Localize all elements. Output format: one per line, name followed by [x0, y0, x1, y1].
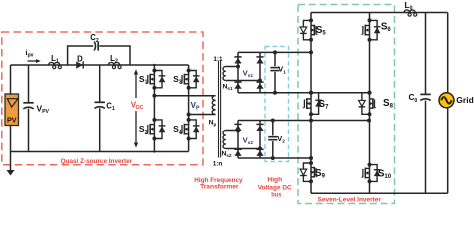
wire inverter right leg	[369, 13, 371, 194]
svg-text:Voltage DC: Voltage DC	[258, 184, 292, 191]
transistor S6	[361, 18, 380, 41]
capacitor C1	[95, 65, 105, 152]
node S2 leg bottom rail	[153, 150, 155, 152]
node V1 bottom	[273, 91, 277, 95]
caption Seven-Level Inverter	[318, 196, 382, 203]
label S8	[383, 98, 394, 110]
wire inverter bottom rail	[311, 192, 448, 194]
diode bridge2 bottom-right	[256, 149, 263, 156]
transformer secondary winding N_s2	[223, 131, 226, 149]
label V1	[278, 65, 286, 76]
label N_s2	[221, 151, 231, 159]
grid source Grid	[439, 93, 454, 108]
svg-text:Seven-Level Inverter: Seven-Level Inverter	[318, 196, 382, 203]
label S7	[319, 99, 330, 111]
label 1:1 turns ratio	[213, 56, 223, 63]
measurement arrow V_dc	[134, 69, 138, 147]
inductor L0	[404, 10, 417, 16]
dashed boundary box: Quasi Z-source Inverter region	[2, 32, 203, 165]
capacitor C2	[94, 41, 98, 50]
label S10	[378, 169, 392, 181]
capacitor C0	[420, 94, 430, 100]
transistor S8	[359, 91, 377, 117]
label L1	[51, 54, 59, 65]
node left-leg midpoint	[152, 94, 156, 98]
node bridge2-bottom rail joins left leg	[309, 156, 313, 160]
diode bridge1 top-right	[256, 57, 263, 64]
wire top rail	[11, 64, 189, 66]
svg-text:Transformer: Transformer	[200, 184, 239, 191]
transistor S7	[303, 91, 322, 117]
node V2 bottom	[271, 156, 275, 160]
diode bridge2 top-right	[256, 124, 263, 131]
wire bridge2 bottom rail	[238, 157, 311, 159]
transistor S1	[146, 69, 165, 90]
wire return stub below PV	[10, 152, 12, 171]
node S1 leg top rail	[153, 64, 155, 66]
wire left-leg midpoint to primary top	[154, 95, 215, 97]
svg-text:1:1: 1:1	[213, 56, 223, 63]
wire PV top riser	[10, 65, 12, 95]
wire inverter top rail	[311, 12, 448, 14]
wire secondary2 top lead	[226, 130, 238, 132]
label V_s2	[243, 136, 254, 147]
label V_s1	[243, 68, 254, 79]
wire bridge2 right leg	[259, 121, 261, 159]
transistor S4	[180, 118, 199, 141]
svg-text:D: D	[77, 55, 83, 64]
label S9	[315, 168, 326, 180]
caption High Voltage DC bus	[258, 177, 292, 199]
label V2	[277, 134, 285, 145]
capacitor V2	[268, 121, 277, 159]
diode bridge2 bottom-left	[234, 149, 241, 156]
label C0	[409, 93, 418, 104]
node V1-top rail joins left leg	[309, 50, 313, 54]
label S4	[173, 124, 182, 136]
label 1:n turns ratio	[213, 161, 223, 168]
wire PV bottom riser	[10, 125, 12, 152]
node right-leg midpoint	[187, 113, 191, 117]
wire secondary1 bottom lead	[226, 80, 260, 82]
transistor S2	[146, 118, 165, 141]
svg-text:1:n: 1:n	[213, 161, 223, 168]
label Grid	[456, 95, 473, 105]
label C1	[106, 101, 115, 112]
wire inverter left leg	[310, 13, 312, 194]
wire bridge1 right leg	[259, 52, 261, 92]
label V_dc	[131, 101, 144, 112]
transistor S5	[300, 18, 318, 41]
PV source PV	[5, 94, 19, 126]
diode bridge1 bottom-right	[256, 82, 263, 89]
wire bridge1 bottom rail	[238, 92, 370, 94]
node V2 top	[271, 119, 275, 123]
capacitor V_PV	[23, 65, 33, 152]
label N_p	[209, 119, 217, 127]
caption High Frequency Transformer	[194, 177, 243, 191]
transistor S10	[361, 163, 380, 184]
node bridge1-bottom rail joins right leg	[368, 91, 372, 95]
transformer primary winding N_p	[212, 96, 215, 115]
label V_P	[191, 101, 200, 112]
diode D	[76, 61, 83, 68]
label i_pv	[25, 48, 33, 59]
capacitor V1	[270, 52, 279, 92]
label L0	[405, 1, 413, 12]
wire grid branch	[447, 13, 449, 194]
label N_s1	[222, 84, 232, 92]
node bridge1 AC right	[258, 79, 262, 83]
wire C0 branch riser	[425, 13, 427, 194]
diode bridge2 top-left	[234, 124, 241, 131]
wire bridge1 left leg	[237, 52, 239, 92]
transistor S9	[300, 161, 318, 183]
caption Quasi Z-source Inverter	[61, 158, 133, 165]
label S1	[139, 74, 148, 86]
label V_PV	[37, 104, 50, 116]
transformer core	[219, 61, 221, 158]
transformer secondary winding N_s1	[223, 67, 226, 81]
wire H-bridge left leg	[153, 65, 155, 152]
wire bridge1 top rail	[238, 51, 311, 53]
inductor L1	[49, 62, 62, 68]
wire secondary1 top lead	[226, 66, 238, 68]
node bridge2 AC right	[258, 147, 262, 151]
wire bridge2 top rail	[238, 120, 369, 122]
wire C2 branch	[68, 46, 130, 65]
diode bridge1 bottom-left	[234, 82, 241, 89]
dashed boundary box: Seven-Level Inverter region	[298, 5, 395, 204]
svg-text:PV: PV	[7, 116, 17, 125]
svg-text:High: High	[267, 177, 282, 184]
node bridge2-top rail joins right leg	[367, 119, 371, 123]
node bridge1 AC left	[236, 65, 240, 69]
label S3	[173, 74, 182, 86]
node bridge2-top rail crosses left leg	[309, 119, 313, 123]
svg-text:bus: bus	[271, 191, 281, 198]
wire secondary2 bottom lead	[226, 148, 260, 150]
label D	[77, 55, 83, 64]
wire right-leg midpoint to primary bottom	[189, 114, 216, 116]
node bridge1-bottom rail joins left leg	[309, 91, 313, 95]
wire bridge2 left leg	[237, 121, 239, 159]
label S5	[316, 25, 327, 37]
current arrow i_pv	[28, 59, 41, 63]
node bridge2 AC left	[236, 129, 240, 133]
label L2	[110, 54, 118, 65]
label S2	[139, 124, 148, 136]
dashed boundary box: High Voltage DC bus region	[265, 47, 289, 162]
inductor L2	[108, 62, 121, 68]
svg-text:Grid: Grid	[456, 95, 473, 105]
wire bottom rail	[11, 151, 189, 153]
ground arrow (down) at PV return	[7, 170, 15, 176]
label S6	[381, 22, 392, 34]
svg-text:Quasi Z-source Inverter: Quasi Z-source Inverter	[61, 158, 133, 165]
wire H-bridge right leg	[188, 65, 190, 152]
label C2	[90, 33, 99, 44]
diode bridge1 top-left	[234, 57, 241, 64]
node V1 top	[273, 50, 277, 54]
transistor S3	[180, 69, 199, 90]
